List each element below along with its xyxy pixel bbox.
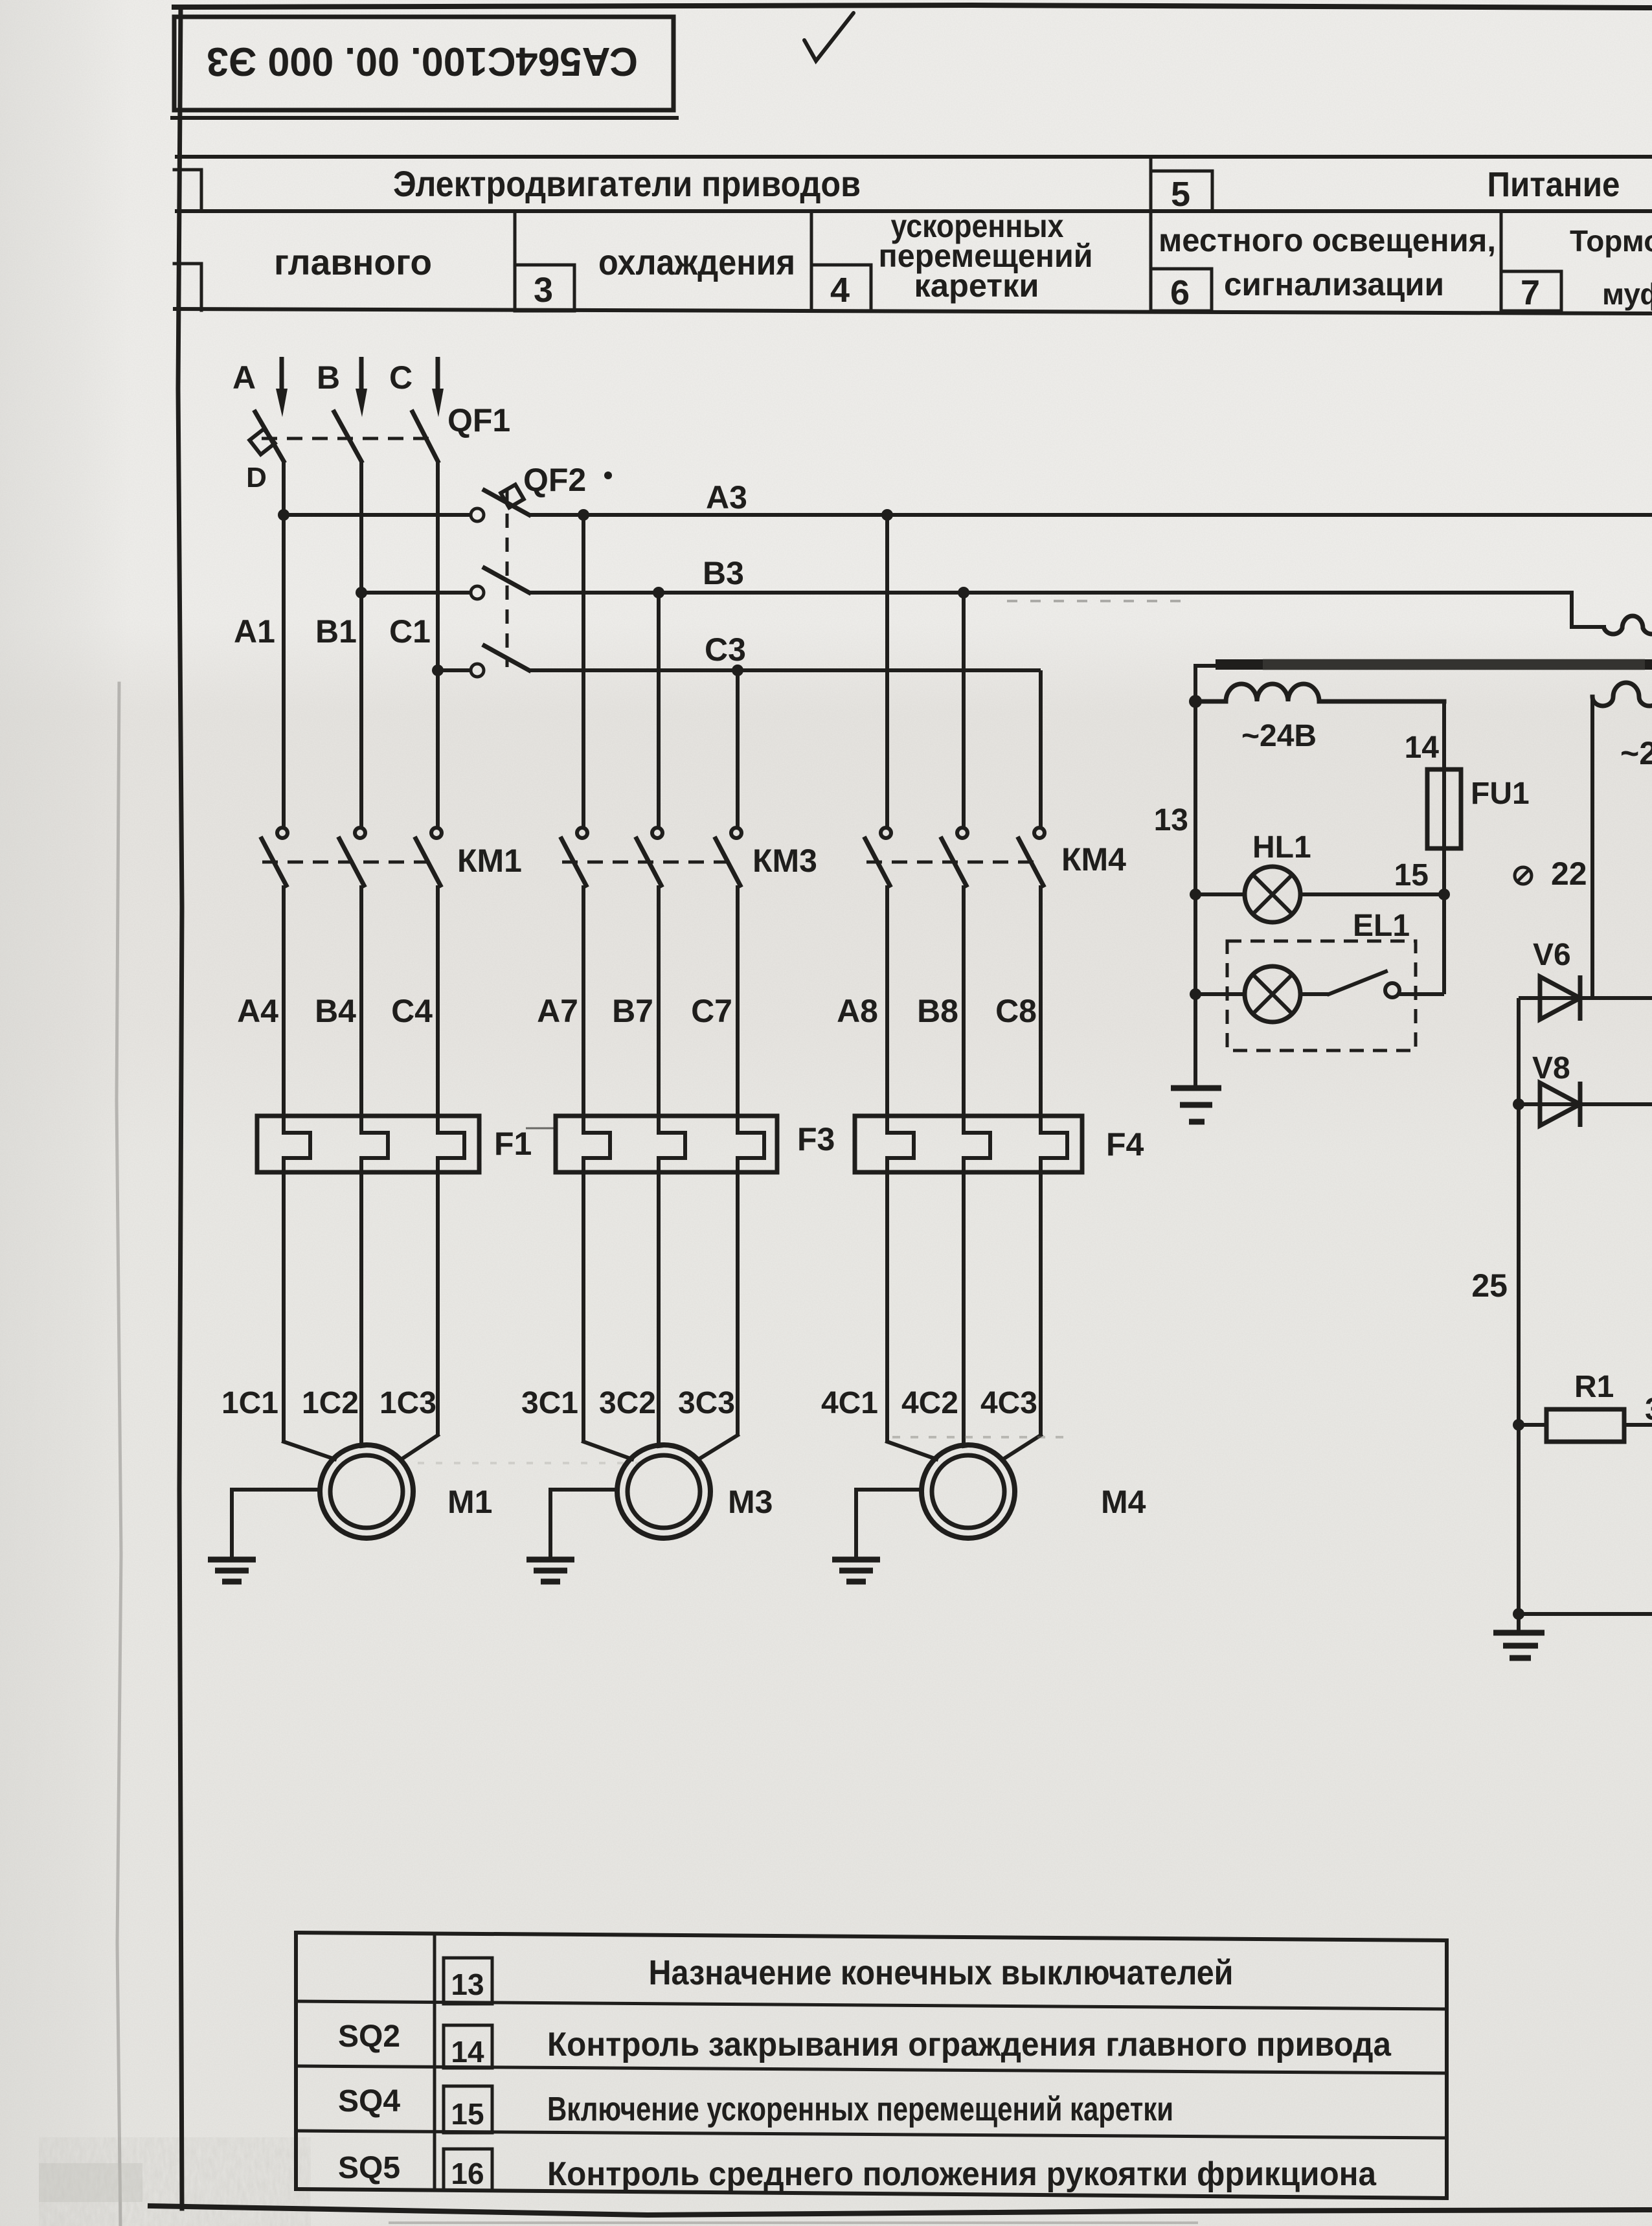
zone bracket row1 [174, 170, 201, 211]
breaker QF2 pole arm [484, 490, 529, 515]
switch after EL1 [1300, 992, 1329, 996]
svg-text:B: B [317, 359, 340, 396]
transformer T1 secondary coil 24V [1195, 684, 1444, 701]
title text CA564C100.00.000 E3 (rotated 180deg) [207, 39, 638, 84]
svg-text:СА564С100. 00. 000 Э3: СА564С100. 00. 000 Э3 [207, 39, 638, 84]
wire 3C3 vertical [736, 1172, 740, 1435]
contactor pole lower wire [657, 885, 661, 1116]
F3 heater element [583, 1116, 610, 1172]
svg-text:М3: М3 [728, 1484, 773, 1520]
breaker QF2 pole fixed contact circle [471, 508, 484, 521]
wire row C3 left segment [438, 668, 470, 672]
contactor pole lower wire [885, 885, 889, 1116]
node A1/A3 [278, 509, 289, 521]
overload relay F3 box [556, 1116, 777, 1172]
F3 heater element [738, 1116, 764, 1172]
motor М1 outer circle [320, 1445, 413, 1538]
svg-text:SQ4: SQ4 [338, 2084, 400, 2118]
svg-text:местного освещения,: местного освещения, [1159, 222, 1496, 258]
svg-text:каретки: каретки [914, 267, 1039, 304]
lead from bus corner [1195, 664, 1216, 668]
scan artifact dashes under B3 [1007, 600, 1188, 602]
contactor pole arm [716, 839, 740, 885]
wire from node to right edge [1519, 1612, 1652, 1616]
wire C7 feeder vertical [736, 670, 740, 829]
wire 4C2 into M4 top [964, 1446, 968, 1446]
breaker QF2 mechanical link dashed [506, 490, 509, 667]
svg-text:QF1: QF1 [447, 402, 510, 438]
breaker QF1 pole B arm [334, 412, 361, 461]
header table top line [175, 155, 1652, 159]
column divider glavnogo/ohlazhdenia [514, 211, 517, 311]
breaker QF2 pole arm [484, 646, 529, 670]
darker scan bands [39, 2137, 311, 2226]
motor ground wire [856, 1490, 922, 1558]
table row line 3 [296, 2131, 1447, 2138]
lamp EL1 circle [1245, 966, 1300, 1022]
sheet bottom border [150, 2206, 1652, 2215]
wire A7 feeder vertical [582, 515, 585, 829]
svg-text:сигнализации: сигнализации [1224, 266, 1444, 302]
svg-text:16: 16 [451, 2157, 484, 2190]
table column divider [433, 1933, 436, 2190]
svg-text:EL1: EL1 [1353, 909, 1410, 943]
sheet top border [174, 5, 1652, 8]
contactor pole arm [637, 839, 661, 885]
checkmark [804, 13, 854, 61]
title block box [174, 17, 673, 110]
svg-text:25: 25 [1471, 1267, 1508, 1304]
fuse FU1 [1427, 769, 1461, 848]
zone box 13 [444, 1958, 492, 2004]
svg-text:C: C [389, 359, 413, 396]
svg-text:5: 5 [1171, 175, 1190, 214]
node secondary left [1189, 695, 1202, 708]
wire A1 vertical [282, 460, 286, 829]
motor М1 inner circle [330, 1455, 403, 1528]
svg-text:~24В: ~24В [1241, 719, 1317, 753]
contactor pole arm [416, 839, 440, 885]
wire 25 vertical [1517, 998, 1521, 1614]
svg-text:A8: A8 [837, 993, 878, 1029]
table row line 2 [296, 2066, 1447, 2073]
svg-text:КМ3: КМ3 [752, 843, 817, 879]
contactor pole terminal circle [652, 828, 662, 838]
svg-text:SQ2: SQ2 [338, 2019, 400, 2054]
breaker QF2 pole fixed contact circle [471, 664, 484, 677]
wire B8 feeder vertical [962, 593, 966, 829]
contactor pole lower wire [1039, 885, 1043, 1116]
wire EL1 to node 15 drop [1399, 992, 1444, 996]
motor М4 inner circle [932, 1455, 1004, 1528]
svg-text:13: 13 [451, 1968, 484, 2001]
wire 14 drop to fuse [1442, 701, 1446, 894]
svg-text:1С1: 1С1 [221, 1386, 278, 1420]
svg-text:A4: A4 [237, 993, 278, 1029]
ground symbol [526, 1557, 574, 1563]
svg-text:B4: B4 [315, 993, 356, 1029]
column divider mestnogo/tormoznoy [1500, 211, 1503, 311]
wire row A3 left segment [284, 513, 470, 517]
svg-text:A1: A1 [234, 613, 275, 650]
wire A8 feeder vertical [885, 515, 889, 829]
svg-text:14: 14 [451, 2035, 484, 2069]
svg-text:Контроль закрывания ограждения: Контроль закрывания ограждения главного … [547, 2026, 1392, 2063]
svg-text:Электродвигатели приводов: Электродвигатели приводов [393, 163, 861, 204]
header table bottom line [175, 309, 1652, 313]
overload relay F4 box [855, 1116, 1082, 1172]
scan artifact dashes right of M1 [418, 1462, 651, 1464]
node C1/C3 [432, 664, 444, 676]
svg-text:М1: М1 [447, 1484, 492, 1520]
phase C arrow [432, 389, 444, 417]
svg-text:4: 4 [830, 271, 850, 310]
wire 1C3 vertical [436, 1172, 440, 1435]
svg-text:A3: A3 [706, 479, 747, 516]
contactor pole lower wire [436, 885, 440, 1116]
ink dot after QF2 label [604, 471, 612, 479]
KM1 mechanical link dashed [262, 861, 434, 864]
node B3/B8 [958, 587, 969, 598]
svg-text:КМ4: КМ4 [1061, 841, 1126, 878]
lamp HL1 circle [1245, 867, 1300, 922]
wire 4C1 vertical [885, 1172, 889, 1442]
node B3/B7 [653, 587, 664, 598]
diode V6 [1519, 996, 1652, 1000]
node at bottom of wire 25 [1513, 1608, 1524, 1620]
svg-text:C8: C8 [995, 993, 1037, 1029]
dashed enclosure around EL1 [1227, 941, 1416, 1051]
svg-text:A: A [232, 359, 256, 396]
contactor pole lower wire [582, 885, 585, 1116]
svg-text:22: 22 [1551, 856, 1587, 892]
column divider motors/power [1149, 157, 1153, 311]
svg-text:F3: F3 [797, 1121, 835, 1157]
breaker QF2 trip square [501, 484, 524, 508]
zone box 3 [515, 265, 574, 311]
overload relay F1 box [257, 1116, 479, 1172]
svg-text:Контроль среднего положения ру: Контроль среднего положения рукоятки фри… [547, 2155, 1377, 2193]
wire B3 step down to transformer primary [1572, 593, 1604, 627]
sheet left border [178, 7, 182, 2209]
wire 4C3 slant into M4 [1003, 1435, 1041, 1459]
contactor pole arm [339, 839, 364, 885]
svg-text:C3: C3 [705, 631, 746, 668]
zone box 5 [1151, 171, 1212, 211]
wire row C3 to KM4 pole [529, 668, 1041, 672]
zone box 4 [811, 265, 871, 311]
wire 1C2 into M1 top [361, 1446, 367, 1446]
contactor pole terminal circle [731, 828, 741, 838]
contactor pole terminal circle [277, 828, 288, 838]
stub to ground [1517, 1614, 1521, 1631]
lamp EL1 cross [1253, 975, 1292, 1014]
F1 heater element [284, 1116, 310, 1172]
svg-text:3С3: 3С3 [678, 1386, 735, 1420]
breaker QF1 pole A arm [255, 412, 284, 461]
node C3/C7 [732, 664, 743, 676]
svg-text:Тормоз: Тормоз [1570, 224, 1652, 258]
breaker QF1 mechanical link dashed [262, 437, 433, 440]
wire node13 vertical [1194, 666, 1197, 1087]
zone box 15 [444, 2086, 492, 2133]
svg-text:4С3: 4С3 [980, 1386, 1037, 1420]
wire 1C1 slant into M1 [284, 1442, 335, 1459]
contactor pole lower wire [962, 885, 966, 1116]
svg-text:~2: ~2 [1620, 735, 1652, 771]
label 22 with diameter mark [1515, 867, 1532, 884]
wire 4C3 vertical [1039, 1172, 1043, 1435]
node B1/B3 [356, 587, 367, 598]
svg-text:охлаждения: охлаждения [598, 242, 795, 282]
svg-text:3С1: 3С1 [521, 1386, 578, 1420]
zone box 14 [444, 2025, 492, 2068]
svg-text:SQ5: SQ5 [338, 2151, 400, 2185]
svg-text:D: D [246, 462, 267, 494]
svg-text:B7: B7 [612, 993, 653, 1029]
motor М3 inner circle [628, 1455, 700, 1528]
node A3/A8 [881, 509, 893, 521]
contactor pole terminal circle [1034, 828, 1045, 838]
transformer T1 secondary-2 coil (clipped) [1592, 683, 1652, 706]
svg-text:4С1: 4С1 [821, 1386, 878, 1420]
contactor pole terminal circle [577, 828, 587, 838]
svg-text:4С2: 4С2 [901, 1386, 958, 1420]
contactor pole lower wire [359, 885, 363, 1116]
contactor pole terminal circle [355, 828, 365, 838]
svg-text:15: 15 [451, 2097, 484, 2131]
node A3/A7 [578, 509, 589, 521]
wire 3C2 vertical [657, 1172, 661, 1446]
breaker QF1 trip square on pole A [249, 429, 275, 454]
phase C supply stub [436, 357, 440, 391]
diode V8 [1513, 1098, 1524, 1110]
contactor pole lower wire [736, 885, 740, 1116]
svg-text:QF2: QF2 [523, 462, 586, 498]
svg-text:3: 3 [534, 271, 553, 310]
wire 4C2 vertical [962, 1172, 966, 1446]
column divider ohlazhdenia/uskorennyh [810, 211, 813, 311]
limit-switch table top line [296, 1933, 1447, 1940]
phase B arrow [356, 389, 367, 417]
limit-switch table right edge [1445, 1940, 1449, 2198]
F4 heater element [964, 1116, 990, 1172]
page bottom edge shadow [389, 2221, 1198, 2224]
svg-text:HL1: HL1 [1252, 830, 1311, 865]
svg-text:F1: F1 [494, 1126, 532, 1162]
svg-text:V8: V8 [1532, 1051, 1570, 1085]
KM4 mechanical link dashed [866, 861, 1036, 864]
wire HL1 row left [1195, 892, 1245, 896]
contactor pole arm [1019, 839, 1043, 885]
wire secondary-2 drop to V6 [1590, 697, 1594, 998]
leader line from F1 label [526, 1128, 554, 1130]
wire EL1 row left [1195, 992, 1245, 996]
contactor pole terminal circle [957, 828, 967, 838]
svg-text:V6: V6 [1533, 938, 1571, 972]
switch terminal circle [1385, 983, 1399, 997]
F3 heater element [659, 1116, 685, 1172]
svg-text:14: 14 [1405, 731, 1440, 765]
phase A supply stub [280, 357, 284, 391]
ground symbol [832, 1557, 880, 1563]
lamp HL1 cross [1253, 875, 1292, 914]
wire 3C3 slant into M3 [699, 1435, 738, 1459]
wire 3C1 slant into M3 [583, 1442, 632, 1459]
svg-text:C1: C1 [389, 613, 431, 650]
breaker QF2 pole fixed contact circle [471, 586, 484, 599]
contactor pole terminal circle [431, 828, 442, 838]
limit-switch table left edge [294, 1933, 298, 2189]
paper edge shadow (left margin) [117, 683, 121, 2226]
wire 1C1 vertical [282, 1172, 286, 1442]
F1 heater element [361, 1116, 388, 1172]
svg-text:7: 7 [1521, 273, 1540, 312]
svg-text:C7: C7 [691, 993, 732, 1029]
table row line 1 [296, 2001, 1447, 2009]
contactor pole lower wire [282, 885, 286, 1116]
svg-text:Назначение конечных выключател: Назначение конечных выключателей [649, 1953, 1234, 1992]
header table middle line [175, 209, 1652, 213]
breaker QF2 pole arm [484, 568, 529, 593]
F4 heater element [1041, 1116, 1067, 1172]
limit-switch table bottom line [296, 2189, 1447, 2198]
wire row A3 to right edge [529, 513, 1652, 517]
zone box 7 [1501, 271, 1561, 311]
transformer T1 primary coil clipped at right edge [1604, 616, 1652, 634]
F1 heater element [438, 1116, 464, 1172]
zone bracket row2 [174, 264, 201, 310]
transformer core / secondary bus (thick) [1216, 659, 1652, 670]
svg-text:Питание: Питание [1488, 165, 1620, 204]
motor ground wire [232, 1490, 320, 1558]
node 13/EL1 [1190, 988, 1201, 1000]
svg-text:М4: М4 [1101, 1484, 1146, 1520]
resistor R1 [1513, 1419, 1524, 1431]
svg-text:муфты: муфты [1602, 277, 1652, 311]
phase B supply stub [359, 357, 364, 391]
svg-text:B3: B3 [703, 555, 744, 591]
transformer ground symbol [1171, 1085, 1221, 1091]
svg-text:главного: главного [274, 242, 432, 282]
svg-text:C4: C4 [391, 993, 433, 1029]
svg-text:F4: F4 [1106, 1126, 1144, 1163]
contactor pole arm [561, 839, 586, 885]
svg-text:15: 15 [1394, 858, 1429, 892]
wire 1C3 slant into M1 [402, 1435, 438, 1459]
contactor pole arm [865, 839, 890, 885]
wire 4C1 slant into M4 [887, 1442, 936, 1459]
svg-text:Включение ускоренных перемещен: Включение ускоренных перемещений каретки [547, 2091, 1173, 2128]
motor М4 outer circle [922, 1445, 1015, 1538]
svg-text:13: 13 [1154, 803, 1188, 837]
svg-text:FU1: FU1 [1471, 777, 1530, 811]
svg-text:R1: R1 [1574, 1370, 1614, 1404]
wire 1C2 vertical [359, 1172, 363, 1446]
svg-text:B1: B1 [315, 613, 357, 650]
wire C8 feeder drop [1039, 670, 1043, 829]
title block double bottom line [170, 116, 679, 120]
ground symbol bottom right [1493, 1630, 1545, 1636]
svg-text:3С2: 3С2 [599, 1386, 656, 1420]
contactor pole arm [262, 839, 286, 885]
svg-text:6: 6 [1170, 273, 1190, 312]
svg-text:A7: A7 [537, 993, 578, 1029]
wire row B3 to transformer [529, 591, 1572, 595]
svg-text:1С3: 1С3 [379, 1386, 436, 1420]
phase A arrow [276, 389, 288, 417]
wire 3C2 into M3 top [659, 1446, 664, 1446]
wire 3C1 vertical [582, 1172, 585, 1442]
motor М3 outer circle [617, 1445, 710, 1538]
node 13/HL1 [1190, 889, 1201, 900]
contactor pole arm [942, 839, 966, 885]
svg-text:3: 3 [1645, 1392, 1652, 1427]
wire B7 feeder vertical [657, 593, 661, 829]
motor ground wire [550, 1490, 617, 1558]
zone box 6 [1151, 269, 1212, 311]
wire B1 vertical [359, 460, 363, 829]
F4 heater element [887, 1116, 914, 1172]
wire C1 vertical [436, 460, 440, 829]
svg-text:КМ1: КМ1 [457, 843, 522, 879]
KM3 mechanical link dashed [562, 861, 733, 864]
node 15 [1438, 889, 1450, 900]
zone box 16 [444, 2149, 492, 2190]
scan artifact dashes above M4 [892, 1436, 1067, 1438]
breaker QF1 pole C arm [413, 412, 438, 461]
ground symbol [208, 1557, 256, 1563]
svg-text:B8: B8 [917, 993, 958, 1029]
svg-text:1С2: 1С2 [302, 1386, 359, 1420]
wire row B3 left segment [361, 591, 470, 595]
contactor pole terminal circle [881, 828, 891, 838]
wire HL1 row right [1300, 892, 1444, 896]
